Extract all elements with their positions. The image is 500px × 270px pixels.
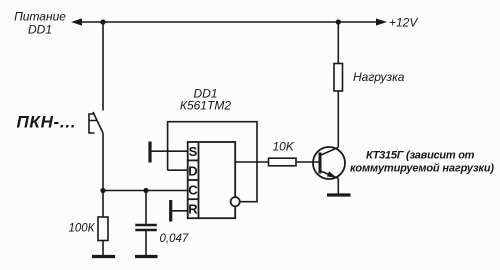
wire emitter	[337, 178, 339, 194]
svg-text:10K: 10K	[273, 140, 295, 154]
wire Q output	[235, 161, 268, 163]
switch SB1 ПКН	[89, 112, 103, 133]
wire collector	[337, 91, 339, 147]
svg-text:S: S	[189, 144, 198, 159]
ground under R1	[92, 255, 115, 258]
wire switch drop	[102, 22, 104, 111]
wire D input	[168, 169, 188, 171]
svg-text:+12V: +12V	[389, 16, 418, 30]
capacitor C1	[135, 191, 157, 256]
node junction top-right	[336, 19, 341, 24]
ground under C1	[135, 255, 158, 258]
svg-text:Питание: Питание	[14, 10, 66, 24]
wire base	[296, 161, 320, 163]
node junction top-left	[100, 19, 105, 24]
power arrow +12V	[376, 18, 387, 25]
resistor R3 Нагрузка	[334, 64, 343, 92]
wire S input	[150, 150, 188, 152]
wire switch to node	[102, 133, 104, 217]
inversion bubble Q̄	[231, 197, 240, 206]
wire C row	[103, 190, 188, 192]
svg-text:коммутируемой нагрузки): коммутируемой нагрузки)	[350, 163, 494, 175]
svg-text:0,047: 0,047	[160, 233, 189, 245]
resistor R1 100К	[98, 217, 108, 241]
power arrow Питание	[71, 18, 82, 25]
ground emitter	[327, 193, 351, 196]
transistor VT1 КТ315Г	[313, 147, 345, 179]
wire load top	[337, 22, 339, 64]
svg-text:100К: 100К	[69, 223, 96, 235]
node junction capacitor tap	[143, 188, 148, 193]
svg-text:D: D	[188, 163, 197, 178]
wire R1 to ground	[102, 241, 104, 256]
wire top rail	[74, 21, 384, 23]
resistor R2 10K	[269, 158, 297, 166]
svg-text:КТ315Г (зависит от: КТ315Г (зависит от	[366, 150, 475, 162]
wire R input	[171, 210, 188, 212]
svg-text:DD1: DD1	[28, 23, 52, 37]
svg-text:Нагрузка: Нагрузка	[353, 70, 405, 84]
node junction C-row left	[100, 188, 105, 193]
wire Q̄ feedback	[168, 122, 257, 202]
svg-text:R: R	[188, 202, 198, 217]
svg-text:ПКН-...: ПКН-...	[17, 113, 77, 132]
svg-text:К561ТМ2: К561ТМ2	[180, 99, 232, 113]
ground at S	[148, 142, 151, 163]
IC U1 DD1 К561ТМ2 box	[188, 142, 236, 218]
ground at R	[169, 200, 172, 222]
svg-text:C: C	[188, 183, 198, 198]
